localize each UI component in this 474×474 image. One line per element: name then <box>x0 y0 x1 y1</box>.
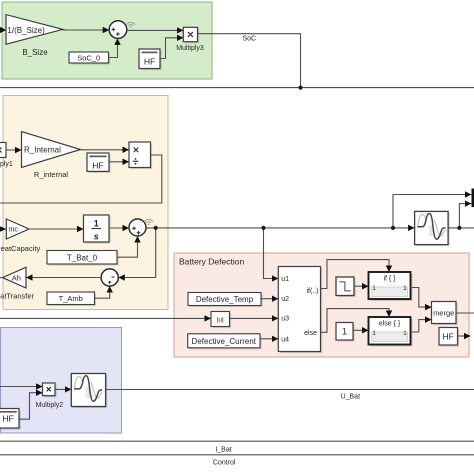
svg-text:SoC: SoC <box>243 36 257 43</box>
svg-text:HF: HF <box>443 331 454 341</box>
svg-text:U_Bat: U_Bat <box>341 393 361 400</box>
svg-text:else: else <box>304 330 317 337</box>
svg-text:|u|: |u| <box>217 316 224 323</box>
svg-text:mc: mc <box>9 227 19 234</box>
svg-text:Defective_Temp: Defective_Temp <box>196 295 254 304</box>
svg-text:1: 1 <box>372 285 376 292</box>
svg-text:HF: HF <box>144 56 155 66</box>
svg-text:HeatCapacity: HeatCapacity <box>0 244 40 253</box>
svg-text:if { }: if { } <box>383 275 396 282</box>
svg-text:Battery Defection: Battery Defection <box>179 257 244 267</box>
svg-text:1: 1 <box>403 285 407 292</box>
svg-text:T_Amb: T_Amb <box>59 294 83 303</box>
svg-text:R_Internal: R_Internal <box>24 146 61 155</box>
svg-text:1: 1 <box>403 330 407 337</box>
svg-text:HeatTransfer: HeatTransfer <box>0 291 35 300</box>
svg-text:u4: u4 <box>281 336 289 343</box>
svg-text:SoC_0: SoC_0 <box>77 53 100 62</box>
svg-text:s: s <box>94 231 99 241</box>
svg-text:Multiply2: Multiply2 <box>36 402 64 409</box>
svg-text:Ah: Ah <box>12 273 21 282</box>
svg-text:HF: HF <box>2 414 13 424</box>
svg-text:1: 1 <box>342 327 347 338</box>
svg-text:u3: u3 <box>281 315 289 322</box>
svg-text:B_Size: B_Size <box>22 48 48 57</box>
svg-text:merge: merge <box>433 308 454 317</box>
svg-text:Multiply1: Multiply1 <box>0 161 13 168</box>
svg-text:Multiply3: Multiply3 <box>176 45 204 52</box>
svg-text:Control: Control <box>213 459 236 466</box>
svg-text:u2: u2 <box>281 296 289 303</box>
svg-text:R_internal: R_internal <box>34 170 69 179</box>
svg-text:1/(B_Size): 1/(B_Size) <box>7 26 45 35</box>
svg-text:1: 1 <box>372 330 376 337</box>
svg-text:HF: HF <box>92 160 103 170</box>
svg-text:u1: u1 <box>281 276 289 283</box>
svg-text:I_Bat: I_Bat <box>215 446 231 453</box>
svg-text:T_Bat_0: T_Bat_0 <box>67 253 98 262</box>
svg-text:1: 1 <box>94 218 99 228</box>
svg-text:if(..): if(..) <box>306 288 318 295</box>
svg-text:Defective_Current: Defective_Current <box>192 337 257 346</box>
svg-text:else { }: else { } <box>379 321 401 328</box>
